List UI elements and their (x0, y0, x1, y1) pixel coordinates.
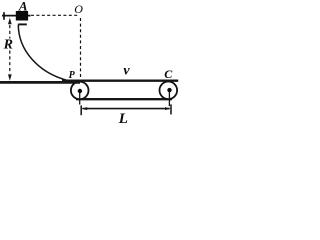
svg-text:P: P (69, 70, 76, 81)
svg-text:L: L (118, 111, 128, 127)
svg-text:O: O (74, 2, 83, 16)
svg-text:C: C (164, 67, 173, 81)
svg-text:A: A (18, 0, 28, 14)
svg-text:R: R (3, 38, 13, 53)
svg-text:v: v (123, 64, 130, 79)
